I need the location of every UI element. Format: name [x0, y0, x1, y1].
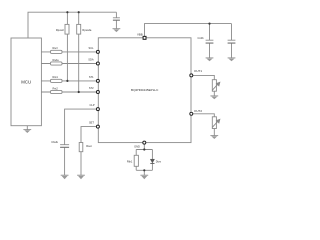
svg-text:Rpuscl: Rpuscl	[56, 28, 64, 32]
svg-text:Rset: Rset	[86, 144, 92, 148]
svg-text:Cvbb: Cvbb	[198, 36, 205, 40]
svg-text:SDA: SDA	[88, 58, 94, 62]
svg-text:BQ2HD0445EPLLC: BQ2HD0445EPLLC	[131, 88, 159, 92]
svg-text:GND: GND	[134, 144, 140, 148]
svg-text:Rscl: Rscl	[53, 46, 58, 50]
svg-text:OUT2: OUT2	[194, 109, 202, 113]
svg-text:ST2: ST2	[89, 86, 94, 90]
svg-text:Rst2: Rst2	[53, 86, 59, 90]
svg-text:Rpusda: Rpusda	[82, 28, 91, 32]
svg-text:Rsda: Rsda	[53, 58, 60, 62]
svg-text:SET: SET	[89, 121, 94, 125]
svg-text:MCU: MCU	[21, 79, 31, 84]
svg-text:SCL: SCL	[89, 46, 95, 50]
svg-text:VBB: VBB	[137, 32, 143, 36]
svg-text:ST1: ST1	[89, 75, 94, 79]
svg-text:Rth1: Rth1	[127, 159, 133, 163]
svg-text:Cbulk: Cbulk	[51, 140, 58, 144]
svg-text:Rst1: Rst1	[53, 75, 59, 79]
svg-text:OUT1: OUT1	[194, 69, 202, 73]
svg-text:CLP: CLP	[90, 103, 95, 107]
svg-text:Dtvs: Dtvs	[156, 159, 162, 163]
